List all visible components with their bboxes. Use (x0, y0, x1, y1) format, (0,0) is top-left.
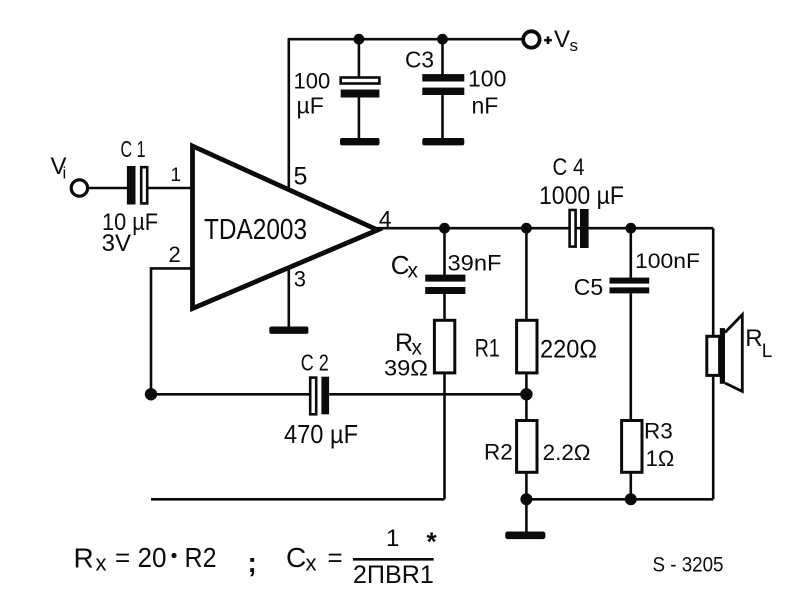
svg-text:R2: R2 (185, 542, 217, 573)
feedback wire C2 to node (329, 393, 526, 396)
capacitor C3 (100nF shunt) (422, 74, 464, 95)
resistor R1 (517, 320, 537, 373)
junction dot R3 ground (625, 493, 637, 505)
junction dot C5 branch (625, 223, 636, 234)
svg-text:=: = (115, 542, 130, 572)
svg-text:220Ω: 220Ω (540, 336, 597, 364)
wire output to R1 (525, 228, 528, 321)
speaker RL (707, 315, 743, 392)
ground bar below 100uF (340, 138, 380, 145)
svg-text:39Ω: 39Ω (384, 355, 428, 380)
svg-text:*: * (427, 527, 438, 557)
pin 2 wire (151, 268, 191, 394)
svg-text:C3: C3 (405, 46, 434, 72)
formula Cx = 1/(2PIBR1) (286, 525, 438, 589)
pin 4 output wire (376, 227, 713, 230)
svg-text:S - 3205: S - 3205 (653, 554, 724, 577)
ground bar pin 3 (269, 327, 308, 334)
svg-text:R: R (395, 329, 413, 357)
svg-text:R: R (74, 543, 94, 574)
svg-text:=: = (328, 542, 343, 572)
capacitor 100uF (polarized shunt) (341, 78, 380, 98)
svg-text:i: i (63, 164, 67, 183)
wire C5 branch (629, 228, 632, 278)
wire speaker return (712, 375, 715, 500)
wire rail to 100uF (358, 39, 361, 78)
svg-text:C5: C5 (574, 274, 603, 300)
supply rail wire (288, 38, 524, 41)
svg-text:L: L (762, 341, 773, 362)
svg-text:1Ω: 1Ω (646, 446, 675, 471)
svg-text:TDA2003: TDA2003 (204, 214, 307, 246)
svg-text:x: x (408, 260, 419, 283)
svg-text:1: 1 (171, 165, 182, 186)
svg-text:39nF: 39nF (448, 250, 502, 275)
svg-text:1000 µF: 1000 µF (539, 182, 624, 210)
input terminal Vi (71, 180, 87, 196)
svg-text:R3: R3 (644, 419, 673, 444)
wire input terminal to C1 (88, 187, 127, 190)
svg-text:V: V (554, 26, 570, 53)
svg-text:100: 100 (294, 68, 331, 93)
wire node to R2 (525, 394, 528, 421)
capacitor C5 (100nF shunt) (610, 278, 650, 294)
wire C5 to R3 (629, 293, 632, 421)
capacitor Cx (39nF shunt) (425, 275, 465, 294)
resistor R2 (517, 421, 537, 473)
svg-text:C: C (286, 542, 306, 573)
svg-text:C 4: C 4 (553, 154, 585, 181)
svg-text:5: 5 (294, 163, 308, 191)
svg-text:20: 20 (138, 542, 167, 573)
ground bar below C3 (422, 138, 464, 145)
wire C1 to pin 1 (148, 187, 192, 190)
svg-text:x: x (96, 551, 107, 576)
op-amp U1 TDA2003 triangle (193, 146, 378, 309)
capacitor C1 (10uF polarized, series) (127, 166, 147, 205)
label +Vs (544, 39, 552, 42)
wire rail to C3 (441, 39, 444, 75)
svg-text:2: 2 (169, 242, 181, 267)
svg-text:µF: µF (297, 93, 324, 119)
wire Cx to Rx (443, 294, 446, 322)
junction dot output R1 branch (521, 223, 532, 234)
junction dot 100uF branch (354, 34, 365, 45)
capacitor C4 (1000uF polarized series) (570, 209, 589, 248)
ground stem below R2 (525, 499, 528, 532)
svg-text:s: s (570, 36, 579, 55)
svg-text:x: x (306, 551, 317, 576)
svg-text:3: 3 (294, 267, 306, 292)
junction dot pin2 / C2 (145, 388, 157, 400)
wire output to Cx (443, 228, 446, 275)
ground bar main (505, 532, 545, 540)
svg-text:470 µF: 470 µF (284, 419, 358, 449)
svg-text:100nF: 100nF (635, 250, 700, 273)
junction dot R2 ground (520, 493, 532, 505)
svg-text:R2: R2 (484, 440, 513, 465)
wire R1 to feedback node (525, 373, 528, 394)
pin 5 wire (287, 39, 290, 189)
svg-text:;: ; (248, 547, 257, 578)
formula Rx = 20 . R2 (74, 542, 257, 578)
svg-text:1: 1 (386, 525, 399, 552)
svg-text:4: 4 (379, 206, 392, 232)
wire R3 to ground rail (629, 472, 632, 499)
svg-text:C 1: C 1 (121, 136, 146, 162)
junction dot R1/R2/C2 node (520, 388, 532, 400)
wire R2 to ground rail (525, 472, 528, 499)
ground rail wire right (526, 498, 713, 501)
feedback wire pin2 node to C2 (151, 393, 310, 396)
svg-text:2ΠBR1: 2ΠBR1 (353, 561, 434, 589)
svg-text:R: R (745, 325, 762, 352)
pin 3 wire (287, 267, 290, 328)
wire C3 to ground (441, 95, 444, 139)
wire to speaker (down right side) (712, 228, 715, 337)
resistor R3 (622, 421, 642, 473)
svg-text:100: 100 (468, 66, 506, 92)
resistor Rx (434, 320, 454, 373)
svg-text:2.2Ω: 2.2Ω (543, 440, 591, 465)
junction dot output Cx branch (439, 223, 450, 234)
svg-text:R1: R1 (475, 334, 500, 362)
bottom-left loop wire (Rx to pin2 node) (151, 498, 445, 501)
svg-text:C 2: C 2 (301, 349, 329, 375)
terminal +Vs (523, 31, 539, 47)
svg-text:nF: nF (472, 93, 499, 119)
svg-text:3V: 3V (102, 230, 131, 257)
wire 100uF to ground (358, 98, 361, 140)
junction dot C3 branch (437, 34, 448, 45)
capacitor C2 (470uF polarized series) (310, 377, 329, 415)
wire Rx to bottom loop (443, 373, 446, 499)
